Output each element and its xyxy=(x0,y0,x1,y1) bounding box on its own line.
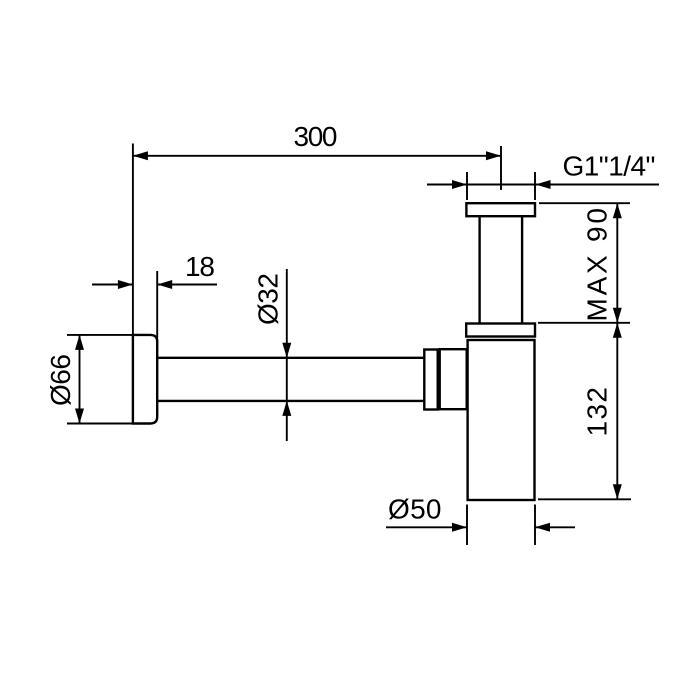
arrowhead G left (points right) xyxy=(452,180,467,189)
extension line flange right face (18) xyxy=(156,271,158,340)
svg-text:18: 18 xyxy=(185,251,215,282)
extension line G-thread left xyxy=(466,172,468,200)
extension line wall face (left, shared by 300 and 18) xyxy=(132,144,134,336)
dimension line 132 xyxy=(616,323,618,500)
extension line MAX 90 top xyxy=(539,202,630,204)
extension line G-thread right xyxy=(534,172,536,200)
arrowhead MAX90 down xyxy=(613,308,622,323)
arrowhead G right (points left) xyxy=(536,180,551,189)
svg-text:Ø66: Ø66 xyxy=(45,354,76,406)
arrowhead 18 right (points left) xyxy=(157,280,172,289)
arrowhead 132 up xyxy=(613,323,622,338)
svg-text:132: 132 xyxy=(582,387,613,437)
dimension line diameter 50 left segment xyxy=(386,526,467,528)
dimension line diameter 50 right segment xyxy=(535,526,575,528)
dimension line 18 right segment xyxy=(157,284,217,286)
vertical pipe left edge xyxy=(478,216,480,323)
arrowhead dia66 up xyxy=(75,335,84,350)
arrowhead dia50 right (points left) xyxy=(535,523,550,532)
arrowhead dia32 down xyxy=(282,343,291,358)
vertical pipe right edge xyxy=(521,216,523,323)
body top nut xyxy=(466,324,535,337)
arrowhead 300 left xyxy=(133,151,148,160)
dimension line diameter 66 xyxy=(79,335,81,424)
svg-text:G1"1/4": G1"1/4" xyxy=(563,151,656,182)
arrowhead 300 right xyxy=(486,151,501,160)
extension line diameter 66 top xyxy=(67,334,133,336)
extension line diameter 50 right xyxy=(534,505,536,546)
extension line pipe centerline (top) xyxy=(500,146,502,190)
arrowhead 132 down xyxy=(613,484,622,499)
arrowhead dia50 left (points right) xyxy=(452,523,467,532)
dimension line MAX 90 xyxy=(616,203,618,323)
svg-text:Ø32: Ø32 xyxy=(253,273,284,325)
extension line diameter 66 bottom xyxy=(67,423,133,425)
extension line 132 bottom xyxy=(538,498,631,500)
arrowhead 18 left (points right) xyxy=(118,280,133,289)
dimension line diameter 32 xyxy=(286,269,288,441)
horizontal pipe top edge xyxy=(157,357,424,359)
trap body xyxy=(468,340,535,500)
dimension line 300 xyxy=(133,155,501,157)
top flange xyxy=(466,203,535,216)
horizontal pipe bottom edge xyxy=(157,400,424,402)
arrowhead MAX90 up xyxy=(613,203,622,218)
extension line diameter 50 left xyxy=(466,505,468,546)
extension line MAX 90 bottom / 132 top xyxy=(538,322,630,324)
arrowhead dia32 up xyxy=(282,401,291,416)
compression ring 2 xyxy=(440,349,467,409)
dimension line 18 left segment xyxy=(92,284,133,286)
svg-text:Ø50: Ø50 xyxy=(388,494,442,525)
arrowhead dia66 down xyxy=(75,409,84,424)
svg-text:300: 300 xyxy=(294,121,338,152)
compression ring 1 xyxy=(424,350,437,410)
dimension line G1"1/4" xyxy=(427,184,659,186)
wall flange (escutcheon, left) xyxy=(133,335,157,424)
